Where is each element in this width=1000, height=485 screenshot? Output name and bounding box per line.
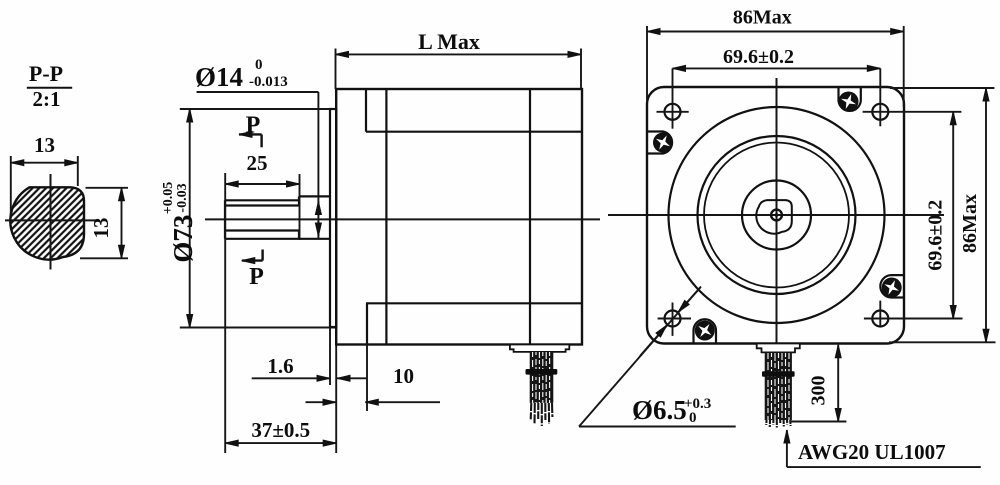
centerline vertical [50, 174, 52, 270]
label AWG20 UL1007 [786, 430, 788, 467]
dimension 69.6 right (vertical) [952, 112, 954, 319]
screw BL [694, 319, 716, 341]
front wire bundle [762, 352, 795, 427]
screw notch BR [880, 275, 904, 297]
dimension dia73 with tolerance (rotated) [180, 108, 331, 110]
front connector grommet [757, 344, 800, 353]
rear end-bell boundary [529, 89, 531, 345]
svg-text:-0.03: -0.03 [175, 183, 190, 212]
screw notch TR [839, 87, 861, 111]
side wire ends [531, 403, 553, 426]
centerline vertical front [776, 78, 778, 357]
svg-text:P: P [249, 264, 264, 290]
svg-text:L Max: L Max [418, 29, 480, 54]
screw notch BL [694, 319, 717, 343]
extension line motor face [335, 345, 337, 453]
centerline side view [205, 218, 600, 220]
svg-text:300: 300 [808, 376, 830, 406]
svg-text:2:1: 2:1 [33, 87, 61, 111]
chamfer end vertical top [365, 89, 367, 132]
pilot circle dia73 [669, 107, 885, 323]
raised ring outer [698, 136, 856, 294]
leader dia6.5 [579, 287, 701, 427]
front view dimensions [579, 7, 996, 468]
svg-text:Ø73: Ø73 [168, 215, 198, 263]
svg-text:86Max: 86Max [733, 7, 792, 29]
section mark P bottom [261, 250, 263, 261]
shaft outline [299, 195, 330, 197]
mounting hole BL [665, 311, 681, 327]
motor body rectangle [336, 89, 582, 345]
centerline horizontal [5, 219, 96, 221]
svg-text:+0.05: +0.05 [161, 182, 176, 214]
front wire ends [766, 420, 790, 428]
screw notch TL [647, 132, 672, 154]
side connector grommet [510, 345, 569, 352]
svg-text:P-P: P-P [29, 61, 63, 86]
mounting hole TR [872, 104, 888, 120]
screw BR [881, 277, 902, 298]
front end-bell boundary [385, 89, 387, 345]
svg-text:86Max: 86Max [959, 194, 981, 253]
svg-text:1.6: 1.6 [267, 354, 293, 378]
screw TL [652, 132, 674, 154]
dimension 300 [837, 345, 839, 422]
centerline horizontal front [608, 214, 944, 216]
dia14 arrows on shaft [317, 202, 319, 217]
dimension 13 vertical [86, 187, 129, 189]
extension line flange end [366, 345, 368, 411]
raised ring inner [704, 143, 849, 288]
svg-text:-0.013: -0.013 [249, 74, 288, 90]
side wire bundle [526, 352, 558, 426]
svg-text:P: P [246, 113, 261, 139]
pilot boss 1.6mm plate [330, 109, 336, 327]
svg-text:69.6±0.2: 69.6±0.2 [925, 200, 947, 271]
shaft cross-section hatched [10, 187, 84, 259]
center hole [771, 210, 782, 221]
mounting hole BR [872, 311, 888, 327]
svg-text:13: 13 [89, 218, 113, 239]
chamfer line bottom [366, 302, 582, 304]
chamfer line top [366, 131, 582, 133]
dimension 86Max right (vertical) [890, 87, 994, 89]
chamfer end vertical bottom [366, 303, 368, 345]
front cable tie band [762, 371, 795, 377]
shaft with flats (front) [756, 200, 792, 234]
svg-text:25: 25 [247, 151, 268, 175]
svg-text:37±0.5: 37±0.5 [251, 418, 310, 442]
svg-text:0: 0 [689, 410, 697, 426]
svg-text:Ø14: Ø14 [195, 62, 243, 92]
extension line pilot below [329, 328, 331, 386]
mounting hole TL [665, 104, 681, 120]
flange square outline [647, 87, 904, 344]
svg-text:AWG20 UL1007: AWG20 UL1007 [798, 440, 946, 464]
svg-text:13: 13 [34, 133, 55, 157]
svg-text:10: 10 [393, 364, 414, 388]
extension line shaft end [224, 173, 226, 453]
svg-text:0: 0 [255, 57, 263, 73]
side cable tie band [526, 369, 558, 375]
section mark P top [239, 133, 262, 135]
svg-text:Ø6.5: Ø6.5 [632, 395, 687, 425]
hub circle [742, 181, 811, 250]
screw TR [838, 91, 859, 112]
svg-text:69.6±0.2: 69.6±0.2 [723, 46, 794, 68]
